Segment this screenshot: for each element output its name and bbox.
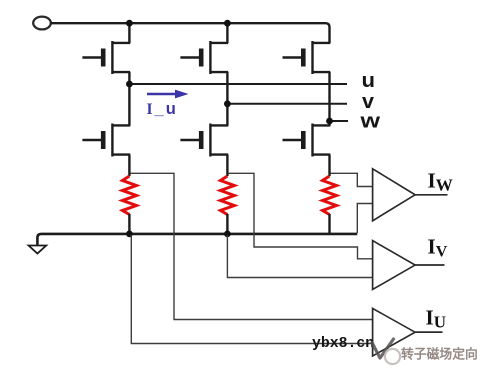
- resistor R3 (shunt W): [323, 176, 337, 215]
- wire: drop to Q2 drain: [226, 23, 228, 43]
- wire: Q5 source to shunt R2: [226, 155, 228, 177]
- wire: Q2 source to node V and Q5 drain: [226, 72, 228, 126]
- wire: R1 top sense to U3 +: [130, 173, 372, 319]
- wire: U3 output: [415, 331, 443, 333]
- transistor Q1 (top, phase U): [82, 41, 130, 74]
- node W: [326, 118, 333, 125]
- wire: R2 ground sense to U2 -: [227, 235, 372, 278]
- wire: top supply rail: [51, 23, 330, 43]
- ground symbol: [29, 246, 47, 254]
- transistor Q2 (top, phase V): [180, 41, 228, 74]
- svg-text:ybx8.cn: ybx8.cn: [312, 336, 374, 352]
- svg-text:w: w: [359, 110, 380, 133]
- node U: [126, 81, 133, 88]
- wire: R2 to ground rail: [226, 214, 228, 234]
- op-amp U2 (Iv): [373, 241, 416, 290]
- wire: Q1 source to node U and Q4 drain: [128, 72, 130, 126]
- op-amp U3 (Iu): [373, 308, 416, 356]
- transistor Q4 (bottom, phase U): [82, 124, 130, 157]
- svg-text:I_u: I_u: [147, 100, 178, 118]
- watermark logo swirl: [385, 349, 400, 364]
- node V: [224, 100, 231, 107]
- op-amp U1 (Iw): [373, 169, 416, 221]
- wire: drop to Q1 drain: [128, 23, 130, 43]
- node: top rail / Q2: [224, 20, 231, 27]
- wire: U2 output: [415, 264, 445, 266]
- wire: R3 top sense to U1 +: [331, 173, 373, 186]
- wire: R1 ground sense to U3 -: [131, 235, 372, 344]
- transistor Q6 (bottom, phase W): [283, 124, 331, 157]
- resistor R1 (shunt U): [122, 176, 136, 215]
- wire: R1 to ground rail: [128, 214, 130, 234]
- svg-text:转子磁场定向: 转子磁场定向: [401, 347, 478, 362]
- wire: U1 output: [415, 194, 448, 196]
- wire: phase line W: [330, 120, 349, 122]
- wire: phase line V: [227, 103, 347, 105]
- wire: Q4 source to shunt R1: [128, 155, 130, 177]
- current arrow I_u: [147, 90, 189, 99]
- wire: ground sense to U1 -: [357, 204, 372, 234]
- wire: phase line U: [129, 83, 347, 85]
- wire: Q3 source to node W and Q6 drain: [328, 72, 330, 126]
- transistor Q3 (top, phase W): [283, 41, 331, 74]
- watermark logo swoosh: [372, 339, 394, 358]
- wire: Q6 source to shunt R3: [328, 155, 330, 177]
- resistor R2 (shunt V): [220, 176, 234, 215]
- wire: R3 to ground rail: [328, 214, 330, 234]
- wire: R2 top sense to U2 +: [228, 173, 372, 258]
- node: top rail / Q1: [126, 20, 133, 27]
- input terminal circle: [33, 17, 51, 30]
- transistor Q5 (bottom, phase V): [180, 124, 228, 157]
- node: ground / R1: [126, 231, 133, 238]
- svg-text:u: u: [362, 69, 376, 92]
- node: ground / R2: [224, 231, 231, 238]
- wire: ground rail: [37, 234, 357, 246]
